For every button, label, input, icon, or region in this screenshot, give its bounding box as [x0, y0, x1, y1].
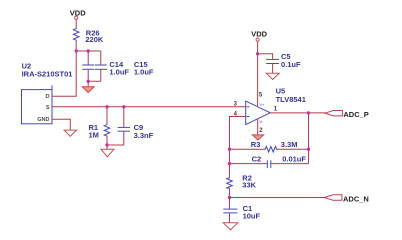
resistor R2 [227, 177, 233, 189]
svg-text:D: D [46, 94, 50, 100]
wire VDD to R26 [75, 19, 77, 27]
ground below C5 [266, 73, 279, 79]
op-amp inverting input marker [247, 116, 250, 118]
svg-text:1.0uF: 1.0uF [109, 68, 129, 77]
ground below C14/C15 (filled) [82, 87, 94, 93]
wire junction to ground [87, 81, 89, 86]
wire C14/C15 bottom leads join [87, 69, 89, 81]
ground below U2 GND pin [64, 130, 76, 136]
wire R3 branch right [278, 148, 309, 150]
capacitor C9 [118, 127, 130, 131]
junction at R1 top [105, 105, 108, 108]
resistor R26 [73, 28, 79, 42]
junction at output [307, 111, 310, 114]
wire C1 to ground [229, 213, 231, 223]
wire C9 bottom lead to R1 [107, 131, 124, 145]
capacitor C15 [95, 65, 107, 69]
capacitor C2 [267, 160, 271, 168]
wire R2 to junction [229, 188, 231, 197]
wire feedback right rail [308, 113, 310, 164]
wire R3 branch left [230, 148, 265, 150]
wire C14 top lead [87, 51, 89, 65]
power symbol VDD circle (top-left) [75, 16, 78, 19]
port ADC_P [325, 111, 342, 116]
wire branch to C5 [258, 54, 273, 60]
svg-text:0.01uF: 0.01uF [282, 155, 306, 164]
resistor R3 [264, 146, 278, 152]
svg-text:ADC_P: ADC_P [343, 110, 368, 119]
junction at C5 branch [256, 52, 259, 55]
svg-text:VDD: VDD [251, 29, 267, 38]
junction below C14 [87, 80, 90, 83]
junction at C9 top [122, 105, 125, 108]
ground below op-amp pin 2 (filled) [252, 135, 263, 140]
wire junction to ADC_N port [230, 197, 325, 199]
wire C15 bottom lead [88, 69, 101, 81]
capacitor C5 [266, 59, 279, 63]
wire op-amp pin 4 feedback rail [230, 117, 246, 177]
wire C1 top lead [229, 198, 231, 210]
junction C2 left [228, 162, 231, 165]
svg-text:U5: U5 [276, 86, 286, 95]
svg-text:IRA-S210ST01: IRA-S210ST01 [22, 69, 73, 78]
wire branch to C14/C15 [76, 50, 101, 52]
svg-text:VDD: VDD [70, 8, 86, 17]
wire to ground below R1 [106, 145, 108, 149]
op-amp non-inverting input marker [247, 106, 250, 108]
wire VDD to op-amp pin 5 [257, 41, 259, 106]
wire op-amp output to ADC_P port [270, 112, 325, 114]
wire U2 pin GND to ground [52, 119, 70, 130]
svg-text:10uF: 10uF [243, 212, 261, 221]
svg-text:TLV8541: TLV8541 [276, 95, 306, 104]
wire R1 top lead [106, 107, 108, 124]
svg-text:3.3nF: 3.3nF [134, 131, 154, 140]
resistor R1 [104, 124, 110, 137]
svg-text:C2: C2 [252, 155, 262, 164]
svg-text:S: S [46, 105, 50, 111]
U2 top stub [51, 85, 53, 89]
wire op-amp pin 2 to ground [257, 119, 259, 135]
svg-text:1M: 1M [89, 131, 99, 140]
capacitor C14 [82, 65, 94, 69]
svg-text:V-: V- [259, 119, 263, 124]
svg-text:220K: 220K [85, 35, 104, 44]
svg-text:V+: V+ [259, 102, 265, 107]
wire C15 top lead [100, 51, 102, 65]
svg-text:1.0uF: 1.0uF [134, 68, 154, 77]
wire C5 to ground [272, 64, 274, 74]
wire C9 top lead [123, 107, 125, 128]
wire R1 bottom lead [106, 137, 108, 145]
junction R3 right [307, 148, 310, 151]
svg-text:GND: GND [37, 117, 49, 123]
svg-text:33K: 33K [242, 181, 256, 190]
junction at R26/VDD rail [75, 49, 78, 52]
power symbol VDD circle (op-amp supply) [256, 38, 259, 41]
op-amp U5 triangle [246, 101, 271, 125]
wire R26 to U2 pin D [52, 41, 76, 96]
capacitor C1 [223, 209, 237, 213]
wire U2 pin S to op-amp pin 3 [52, 106, 246, 108]
ground below C1 [223, 223, 238, 230]
svg-text:3.3M: 3.3M [281, 140, 298, 149]
junction at C14 top [87, 49, 90, 52]
wire C2 branch right [271, 163, 309, 165]
junction R3 left [228, 148, 231, 151]
ground below R1/C9 [101, 149, 114, 157]
port ADC_N [325, 195, 342, 200]
wire C2 branch left [230, 163, 268, 165]
svg-text:ADC_N: ADC_N [343, 194, 369, 203]
junction R2/C1 [228, 196, 231, 199]
sensor U2 body [22, 90, 53, 124]
svg-text:R3: R3 [251, 140, 261, 149]
junction below R1 [105, 143, 108, 146]
svg-text:0.1uF: 0.1uF [281, 60, 301, 69]
